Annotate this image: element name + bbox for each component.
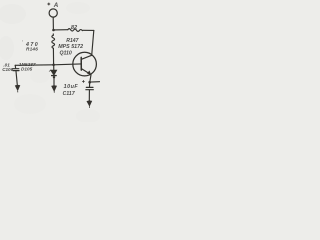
- zener diode bar: [52, 75, 56, 77]
- wire zener top lead: [53, 65, 55, 70]
- plus sign at output cap: [82, 80, 85, 83]
- resistor R147 squiggle 82 ohm: [68, 29, 83, 32]
- svg-text:10uF: 10uF: [64, 84, 79, 90]
- svg-text:D105: D105: [21, 67, 33, 72]
- wire resistor bottom to rail junction: [52, 48, 54, 64]
- small tick left of zener: [49, 70, 50, 71]
- emitter arrowhead: [87, 71, 91, 76]
- base rail wire: [15, 64, 81, 65]
- svg-text:C106: C106: [2, 67, 13, 72]
- transistor base bar: [80, 57, 82, 70]
- junction dot at emitter output: [88, 81, 91, 84]
- emitter vertical wire: [90, 75, 91, 83]
- svg-text:A: A: [53, 2, 59, 9]
- wire zener to ground: [53, 76, 55, 85]
- capacitor C117 plates: [86, 86, 93, 88]
- svg-text:C117: C117: [63, 91, 75, 97]
- wire corner down to collector: [92, 30, 94, 55]
- wire C117 to ground: [88, 90, 90, 101]
- wire rail corner down to C106: [14, 65, 16, 68]
- junction dot below zener: [53, 76, 55, 78]
- wire C106 to ground: [16, 71, 17, 85]
- wire from +A terminal down to junction: [52, 17, 54, 30]
- wire junction to right branch: [54, 29, 68, 31]
- transistor Q110 circle: [73, 52, 97, 76]
- output stub wire: [90, 81, 100, 83]
- junction dot at rail and zener: [52, 64, 55, 67]
- collector diagonal: [81, 55, 91, 59]
- wire resistor to corner: [83, 29, 94, 31]
- node +A terminal circle: [49, 9, 57, 17]
- zener diode D105 triangle: [51, 70, 56, 75]
- paper background: [0, 0, 100, 122]
- svg-text:R147: R147: [66, 38, 79, 44]
- wire emitter junction down to C117: [89, 82, 91, 87]
- svg-text:82: 82: [71, 25, 78, 31]
- ground arrow under zener D105: [51, 85, 57, 92]
- svg-text:MPS 5172: MPS 5172: [58, 44, 83, 50]
- capacitor C106 plates: [13, 68, 19, 70]
- svg-text:R146: R146: [26, 47, 38, 52]
- ground arrow under C117: [87, 100, 93, 106]
- faint paper mottling: [0, 2, 100, 123]
- emitter diagonal: [81, 69, 91, 75]
- junction dot at top tee: [52, 29, 55, 32]
- svg-text:Q110: Q110: [60, 51, 72, 57]
- wire 470 resistor top lead: [52, 34, 54, 35]
- plus sign at +A: [47, 3, 50, 6]
- resistor R146 zigzag 470 ohm: [52, 35, 55, 48]
- ground arrow under C106: [15, 85, 20, 92]
